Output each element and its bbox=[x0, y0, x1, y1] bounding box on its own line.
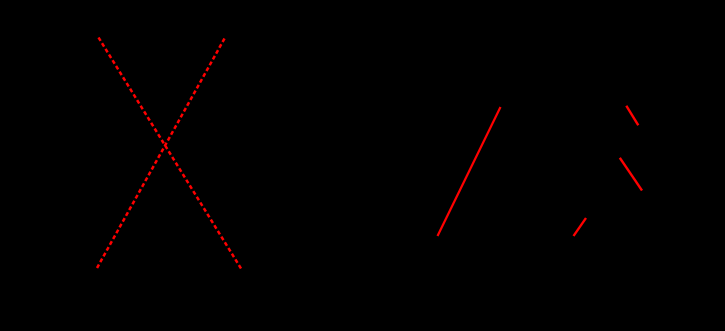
solid rising line bbox=[438, 107, 501, 236]
dotted line X branch 1 (top-left to bottom-right) bbox=[99, 38, 242, 269]
lower short rising dash bbox=[574, 218, 587, 236]
dotted line X branch 2 (top-right to bottom-left) bbox=[97, 39, 225, 269]
middle dash segment bbox=[620, 158, 642, 191]
upper dash segment bbox=[626, 106, 638, 126]
